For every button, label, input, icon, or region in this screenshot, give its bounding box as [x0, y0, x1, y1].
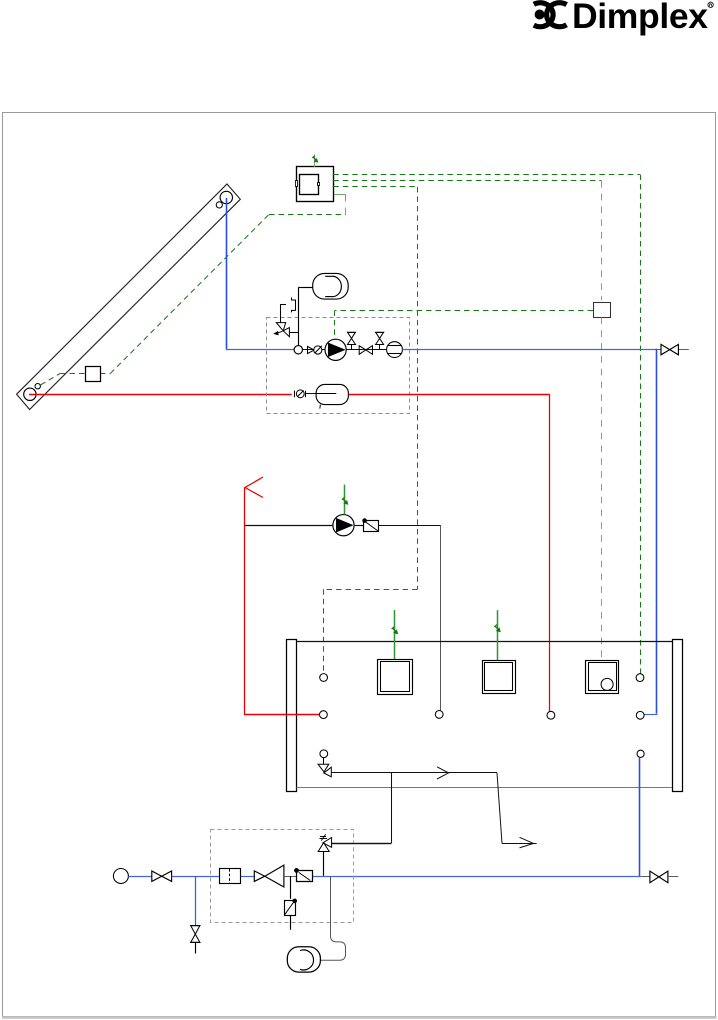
heater flange box 1: [378, 660, 413, 695]
pipe pump to actuator: [354, 525, 363, 527]
wire: storage sensor to solar pump (dark green dashed): [335, 310, 593, 312]
drain to safety valve connection: [391, 773, 393, 844]
tank drain angle valve: [323, 758, 325, 765]
drain line with arrow: [331, 772, 497, 774]
warm water take-off valve: [641, 876, 650, 878]
lightning bolt heating pump: [342, 497, 348, 504]
circulation pump: [287, 947, 320, 972]
wire W3: controller to tank lower sensor (dark green dashed): [333, 186, 417, 188]
siphon bracket: [292, 297, 296, 312]
pipe: solar flow to tank (blue): [402, 349, 656, 351]
shut-off valve cold water: [152, 871, 162, 881]
pipe: cold water main (blue): [172, 876, 220, 878]
port valve circle on solar flow: [294, 346, 302, 354]
lightning bolt heater 1: [392, 626, 398, 633]
safety valve discharge arrow: [276, 331, 283, 333]
safety valve (solar): [276, 323, 285, 331]
expansion vessel (membrane): [313, 273, 349, 299]
controller inner notch: [318, 183, 320, 186]
wire W2 vertical lower (light green dashed): [601, 318, 603, 660]
collector top sensor circle: [216, 202, 222, 208]
tank port mid-right: [636, 711, 644, 719]
safety valve spring: [320, 836, 326, 838]
segment reducer to check valve: [284, 876, 297, 878]
heating pump power wire: [344, 485, 346, 515]
collector sensor junction box: [86, 367, 101, 382]
heating circuit arrow (red): [245, 477, 263, 498]
pipe: to tank port: [379, 525, 441, 527]
solar station dashed enclosure: [267, 318, 410, 414]
pipe: heating circuit (black): [245, 525, 333, 527]
buffer tank right cap: [673, 640, 683, 792]
tank port lower-right: [637, 750, 644, 757]
wire W2 horizontal: controller to storage sensor (dark green dashed): [333, 180, 601, 182]
wire W2 vertical upper (light green dashed): [601, 181, 603, 301]
drain branch (blue): [195, 877, 197, 926]
cold water source circle: [113, 869, 128, 884]
heater flange box 2: [483, 661, 516, 694]
tank port mid-center: [435, 711, 443, 719]
collector bottom port circle: [24, 388, 36, 400]
shut-off valve top right: [661, 344, 670, 354]
controller left tab: [296, 181, 298, 187]
drain valve (vertical bowtie): [190, 926, 201, 943]
svg-text:Dimplex: Dimplex: [572, 0, 708, 36]
heater 1 power wire: [394, 610, 396, 659]
controller box: [297, 167, 334, 202]
pipe: cold water (blue): [128, 876, 151, 878]
solar pump: [325, 339, 346, 360]
stub to external (grey): [657, 349, 661, 351]
tank top edge: [297, 641, 673, 643]
cold water group dashed enclosure: [211, 830, 354, 923]
controller display inner box: [300, 175, 319, 195]
thermostat flange box 3: [586, 661, 619, 694]
DHW safety valve: [323, 852, 325, 876]
storage sensor box: [594, 303, 611, 318]
solar collector panel: [17, 184, 241, 410]
lightning bolt heater 2: [494, 624, 500, 631]
pipe: solar flow (blue) from collector: [226, 198, 228, 349]
collector top port circle: [220, 191, 232, 203]
wire W1: controller to tank sensor port (dark green dashed): [333, 174, 640, 176]
heater 2 power wire: [497, 610, 499, 660]
registered trademark symbol: [708, 2, 713, 7]
pipe: heating return through cap (red): [286, 714, 298, 716]
pipe: DHW outlet (blue): [639, 757, 641, 877]
tank port mid-left: [320, 711, 328, 719]
KFE valve 1 (vertical): [347, 332, 356, 349]
shut-off valve (bowtie, solar flow): [359, 346, 366, 355]
tank port mid-right2: [547, 711, 555, 719]
pressure test box: [285, 901, 296, 916]
heating pump: [333, 515, 354, 536]
Dimplex logo dot: [535, 10, 545, 20]
filter: [220, 869, 241, 884]
tank port upper-right: [636, 674, 644, 682]
pipe segment through station (black): [303, 349, 402, 351]
tank bottom edge: [297, 787, 673, 789]
pipe: vessel connection: [299, 287, 313, 289]
pressure gauge branch: [290, 876, 292, 899]
KFE valve 2 (vertical): [375, 332, 384, 349]
pipe segment into vessel (black): [306, 393, 337, 395]
tank port upper-left: [320, 674, 328, 682]
check valve (solar flow): [308, 346, 315, 353]
pipe: solar return (red) from collector: [29, 394, 292, 396]
pipe: heating return (red): [244, 488, 246, 716]
air separator vessel on return: [316, 384, 348, 404]
wire: collector sensor to controller (dashed green): [41, 374, 61, 386]
check valve (solar return): [294, 391, 296, 398]
controller mains wire: [314, 155, 316, 168]
safety valve discharge stub: [280, 304, 286, 306]
flow switch box: [364, 521, 379, 532]
tank port lower-left: [320, 750, 328, 758]
pressure reducing valve: [254, 871, 264, 882]
Dimplex logo mark: C: [547, 3, 567, 27]
collector bottom sensor circle: [35, 384, 40, 389]
flow meter: [387, 342, 403, 358]
circulation branch (grey): [321, 877, 346, 961]
controllable check valve box: [297, 871, 313, 882]
Dimplex logo mark: reversed C: [534, 3, 553, 27]
pipe: solar return to tank (red): [349, 394, 550, 396]
wire: sensor riser to controller pin (light green): [345, 201, 347, 215]
controller mains lightning bolt: [312, 156, 317, 162]
buffer tank left cap: [287, 640, 297, 792]
